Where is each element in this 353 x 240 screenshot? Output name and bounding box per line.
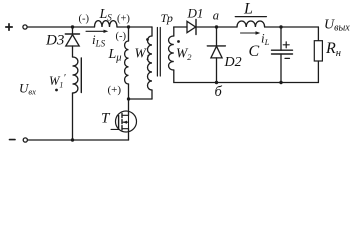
transformer core bars <box>157 28 160 77</box>
input terminal bottom circle <box>23 138 27 142</box>
diode D2 <box>216 27 218 46</box>
transistor internal stubs <box>122 115 129 128</box>
svg-text:W2: W2 <box>176 46 192 63</box>
node junction C bottom <box>279 81 282 84</box>
diode D3 <box>72 27 74 34</box>
wire W1 bottom link <box>129 98 153 100</box>
svg-text:a: a <box>213 9 219 23</box>
wire W1' bottom to rail <box>72 93 74 140</box>
capacitor C lead top <box>280 27 282 50</box>
capacitor C plates <box>272 50 293 54</box>
wire top rail to W1 <box>129 26 153 28</box>
transistor channel bar dashes <box>121 113 123 129</box>
resistor RH body <box>314 41 322 61</box>
svg-text:Uвых: Uвых <box>324 18 350 34</box>
node junction drain <box>127 97 130 100</box>
inductor Lmu coil <box>125 41 129 84</box>
svg-text:(+): (+) <box>108 84 122 96</box>
node junction C top <box>279 25 282 28</box>
svg-text:T: T <box>101 111 111 127</box>
wire W2 bottom <box>174 70 217 83</box>
transistor arrow stub <box>123 121 129 123</box>
resistor RH lead top <box>317 27 319 41</box>
wire W1 bottom <box>151 90 153 99</box>
wire L to RH corner <box>265 26 319 28</box>
svg-text:Тр: Тр <box>161 11 173 25</box>
svg-text:W1′: W1′ <box>49 73 66 90</box>
core bar W1' <box>80 58 82 93</box>
svg-text:Rн: Rн <box>325 40 341 59</box>
svg-text:Lμ: Lμ <box>108 47 122 64</box>
transistor gate bar <box>118 116 120 130</box>
node junction D3 top <box>71 25 74 28</box>
inductor Lmu vertical line top <box>128 27 130 41</box>
node junction a <box>215 25 218 28</box>
svg-text:C: C <box>249 43 260 60</box>
winding W1 vertical lead <box>151 27 153 36</box>
svg-text:iLS: iLS <box>92 32 106 49</box>
transistor gate lead <box>111 128 119 130</box>
input plus terminal sign <box>6 24 12 30</box>
inductor L core bar <box>235 16 266 18</box>
polarity dot W1 <box>146 38 149 41</box>
node junction Lmu top <box>127 25 130 28</box>
svg-text:iL: iL <box>261 31 270 48</box>
polarity dot W2 <box>177 40 180 43</box>
capacitor C lead bottom <box>280 54 282 83</box>
winding W2 vertical lead <box>173 27 175 36</box>
wire W2 top to D1 <box>174 26 187 28</box>
transistor T circle <box>116 111 137 132</box>
svg-text:L: L <box>243 1 253 18</box>
svg-text:(+): (+) <box>117 14 130 25</box>
wire a to L <box>217 26 238 28</box>
svg-text:D1: D1 <box>187 6 204 21</box>
node junction D2 bottom <box>215 81 218 84</box>
diode D1 <box>187 21 196 32</box>
polarity dot W1' <box>55 89 58 92</box>
svg-text:LS: LS <box>99 7 113 23</box>
svg-text:(-): (-) <box>79 14 90 25</box>
input terminal top circle <box>23 25 27 29</box>
svg-text:Uвх: Uвх <box>19 81 36 97</box>
transistor T drain wire <box>128 99 130 115</box>
svg-text:D2: D2 <box>224 55 242 70</box>
inductor LS coil <box>95 21 118 27</box>
transistor source wire <box>128 129 130 140</box>
inductor L coil <box>237 21 265 27</box>
current arrow iLS <box>86 30 106 32</box>
label plus of C <box>283 42 289 48</box>
label minus of C <box>285 57 290 59</box>
wire bottom rail <box>28 139 129 141</box>
wire Ls to node <box>117 26 129 28</box>
current arrow iL <box>241 32 257 34</box>
winding W2 coil <box>169 36 174 70</box>
wire top rail to Ls <box>73 26 95 28</box>
svg-text:D3: D3 <box>45 33 64 49</box>
wire Lmu bottom <box>128 84 130 99</box>
node junction D3 bottom <box>71 138 74 141</box>
svg-text:б: б <box>215 84 223 100</box>
resistor RH lead bottom <box>317 61 319 83</box>
input minus terminal sign <box>10 139 16 141</box>
wire secondary bottom rail <box>217 82 319 84</box>
winding W1 coil <box>148 36 153 90</box>
wire top rail left <box>27 26 72 28</box>
svg-text:(-): (-) <box>116 31 127 42</box>
winding W1' coil <box>73 57 78 93</box>
